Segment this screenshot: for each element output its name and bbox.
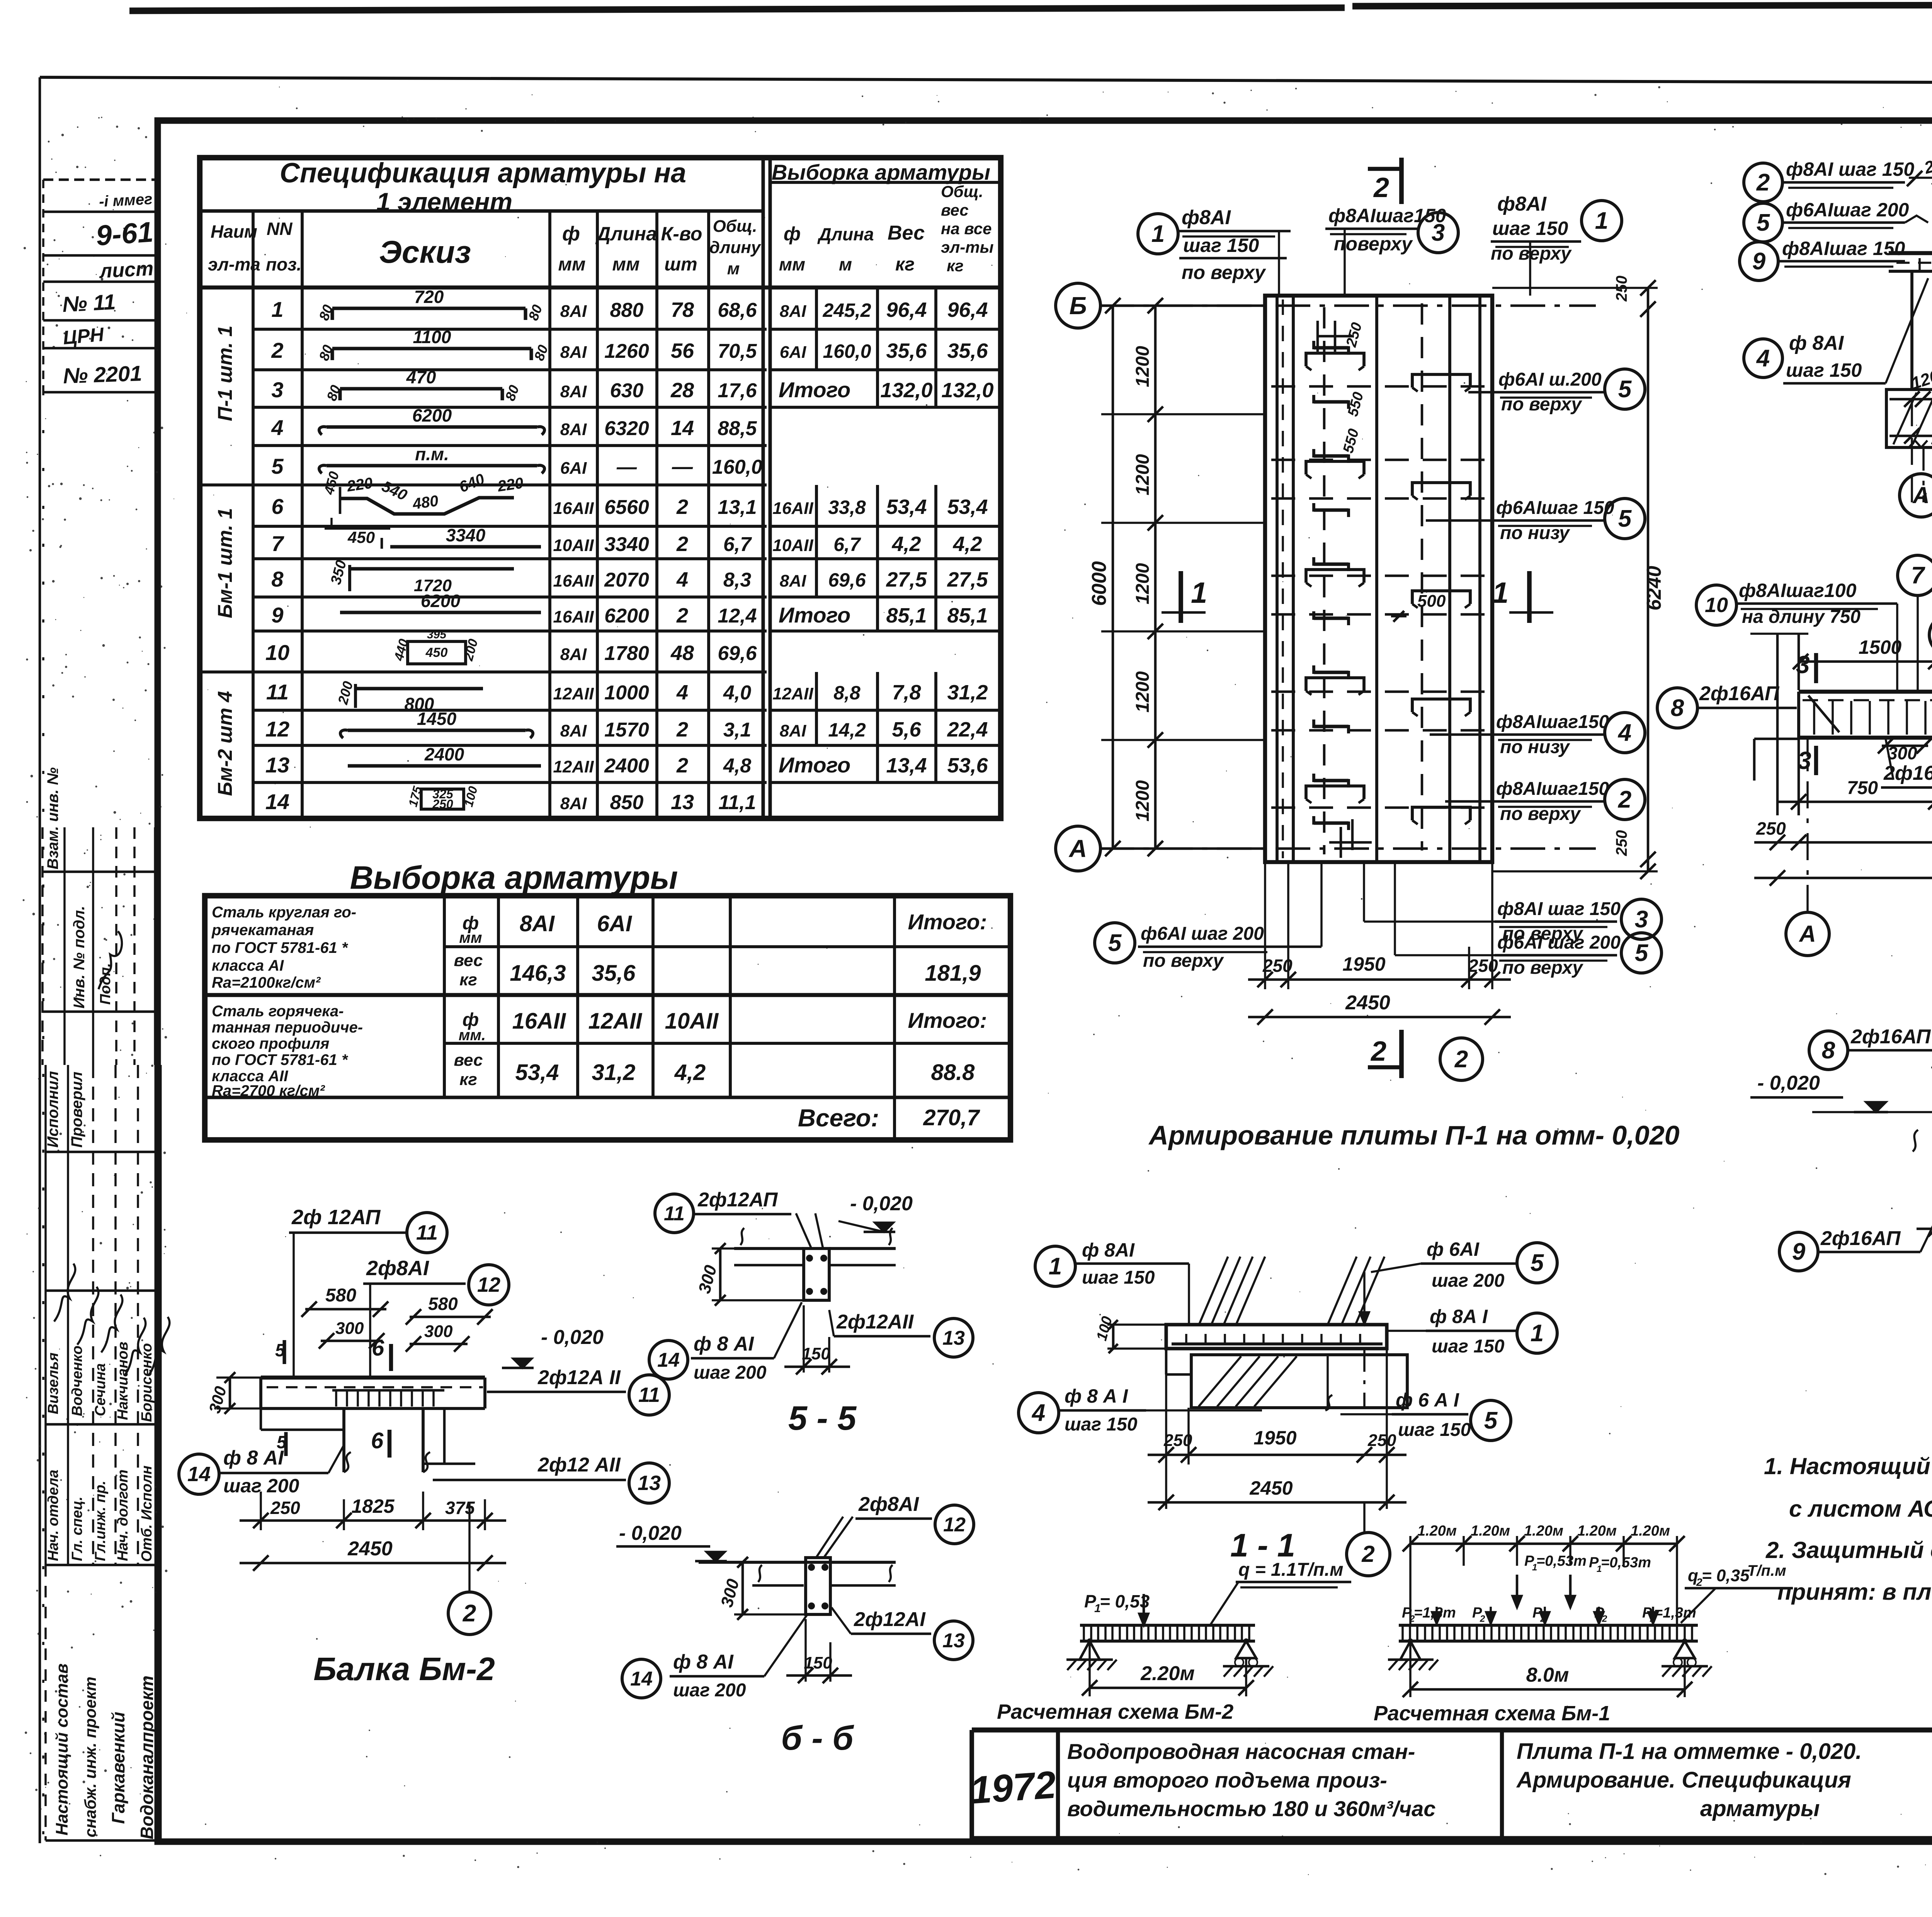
svg-text:- 0,020: - 0,020 bbox=[619, 1522, 682, 1544]
svg-text:ф8АIшаг150: ф8АIшаг150 bbox=[1496, 712, 1609, 732]
svg-text:2: 2 bbox=[271, 338, 283, 362]
svg-text:10: 10 bbox=[1705, 594, 1728, 617]
svg-text:№ 11: № 11 bbox=[62, 289, 116, 316]
svg-text:13: 13 bbox=[638, 1471, 661, 1495]
svg-text:Гл. спец.: Гл. спец. bbox=[69, 1497, 85, 1561]
svg-text:4: 4 bbox=[676, 568, 688, 591]
svg-text:250: 250 bbox=[1163, 1431, 1192, 1450]
spec header lines bbox=[200, 209, 763, 213]
svg-text:2450: 2450 bbox=[347, 1538, 393, 1560]
svg-text:Длина: Длина bbox=[595, 223, 657, 245]
svg-text:12АII: 12АII bbox=[772, 684, 813, 703]
beam Bm-2 slab bbox=[261, 1376, 485, 1379]
svg-text:250: 250 bbox=[1756, 818, 1786, 839]
svg-text:ф 8 АI: ф 8 АI bbox=[694, 1333, 754, 1355]
svg-text:13: 13 bbox=[671, 791, 694, 814]
1-1 dims 250/1950/250 bbox=[1165, 1349, 1167, 1509]
svg-text:5: 5 bbox=[1531, 1250, 1544, 1276]
svg-text:480: 480 bbox=[411, 492, 439, 513]
svg-text:1200: 1200 bbox=[1133, 780, 1153, 822]
svg-text:4,8: 4,8 bbox=[723, 755, 751, 777]
svg-text:2: 2 bbox=[676, 604, 688, 627]
sketch row6 bent bar bbox=[340, 498, 514, 514]
svg-text:Выборка арматуры: Выборка арматуры bbox=[772, 160, 990, 184]
svg-text:ф 8 АI: ф 8 АI bbox=[223, 1447, 284, 1469]
sketch row8 bbox=[348, 565, 351, 591]
svg-text:2.20м: 2.20м bbox=[1140, 1662, 1195, 1685]
Bm-1 callout 10 mid bbox=[1929, 615, 1932, 655]
svg-text:69,6: 69,6 bbox=[828, 569, 866, 591]
scheme Bm-2 right support bbox=[1236, 1641, 1256, 1658]
5-5 callout 14 bbox=[649, 1340, 688, 1379]
svg-text:16АII: 16АII bbox=[553, 499, 594, 518]
svg-text:3,1: 3,1 bbox=[723, 719, 751, 741]
bottom-left organization stamp bbox=[44, 1565, 47, 1840]
svg-text:Гл.инж. пр.: Гл.инж. пр. bbox=[92, 1481, 109, 1561]
plan left rebar ticks bbox=[1314, 346, 1349, 349]
svg-text:1.20м: 1.20м bbox=[1524, 1523, 1563, 1539]
svg-text:11: 11 bbox=[266, 680, 289, 704]
axis dash-dot lines bbox=[1099, 304, 1596, 307]
svg-text:450: 450 bbox=[425, 645, 448, 660]
svg-text:Всего:: Всего: bbox=[798, 1104, 879, 1132]
svg-text:395: 395 bbox=[427, 628, 447, 641]
svg-text:ф 6 А I: ф 6 А I bbox=[1396, 1389, 1459, 1411]
svg-text:Армирование. Спецификация: Армирование. Спецификация bbox=[1516, 1767, 1851, 1793]
svg-text:м: м bbox=[727, 259, 740, 278]
svg-text:1: 1 bbox=[1531, 1320, 1544, 1347]
section 5-5 flange bbox=[734, 1247, 804, 1250]
svg-text:5: 5 bbox=[1618, 505, 1632, 532]
svg-text:1: 1 bbox=[1492, 577, 1509, 609]
svg-text:53,4: 53,4 bbox=[515, 1060, 559, 1085]
svg-text:=0,53т: =0,53т bbox=[1601, 1555, 1651, 1571]
top-left registry stamp bbox=[43, 179, 158, 181]
Bm-2 callout 14 bbox=[179, 1454, 219, 1494]
plan bottom dim 250-1950-250 bbox=[1264, 862, 1266, 989]
svg-text:17,6: 17,6 bbox=[718, 379, 757, 402]
svg-text:по верху: по верху bbox=[1491, 243, 1572, 264]
svg-text:мм: мм bbox=[558, 254, 585, 275]
svg-text:Борисенко: Борисенко bbox=[139, 1343, 155, 1422]
title block frame bbox=[972, 1728, 1932, 1733]
svg-text:ф8АI шаг 150: ф8АI шаг 150 bbox=[1786, 158, 1914, 180]
svg-text:9-61: 9-61 bbox=[95, 216, 155, 252]
svg-text:1.20м: 1.20м bbox=[1471, 1523, 1510, 1539]
svg-text:2070: 2070 bbox=[604, 569, 649, 591]
Bm-1 dim 6240 bbox=[1754, 877, 1932, 879]
section 6-6 flange bbox=[699, 1561, 896, 1564]
svg-text:2450: 2450 bbox=[1249, 1477, 1293, 1499]
row lines bbox=[253, 328, 767, 331]
svg-text:по низу: по низу bbox=[1500, 523, 1570, 543]
svg-text:ф 6АI: ф 6АI bbox=[1427, 1238, 1480, 1260]
svg-text:8АI: 8АI bbox=[780, 721, 806, 740]
svg-text:5 - 5: 5 - 5 bbox=[788, 1399, 857, 1437]
middle-left stamp table bbox=[41, 827, 44, 1065]
svg-text:2ф12АП: 2ф12АП bbox=[697, 1189, 778, 1211]
svg-text:Сечина: Сечина bbox=[92, 1363, 109, 1416]
svg-text:=0,53т: =0,53т bbox=[1536, 1553, 1587, 1569]
svg-text:4: 4 bbox=[1617, 720, 1631, 746]
section 6-6 rib bbox=[806, 1558, 830, 1614]
svg-text:Водопроводная насосная стан-: Водопроводная насосная стан- bbox=[1067, 1739, 1415, 1764]
bottom-left signature stamp bbox=[44, 1065, 47, 1565]
scheme Bm-1 left support bbox=[1400, 1641, 1420, 1660]
svg-text:8: 8 bbox=[271, 567, 284, 591]
svg-text:6,7: 6,7 bbox=[833, 534, 861, 555]
sketch row2 bbox=[332, 347, 531, 350]
svg-text:ф 8 А I: ф 8 А I bbox=[1065, 1385, 1128, 1407]
svg-text:шт: шт bbox=[664, 254, 697, 275]
svg-text:7,8: 7,8 bbox=[892, 681, 921, 704]
svg-text:580: 580 bbox=[428, 1294, 458, 1314]
svg-text:300: 300 bbox=[424, 1322, 453, 1341]
svg-text:12,4: 12,4 bbox=[718, 605, 757, 627]
svg-text:750: 750 bbox=[1847, 778, 1878, 798]
svg-text:класса АI: класса АI bbox=[212, 957, 284, 974]
svg-text:16АII: 16АII bbox=[553, 607, 594, 626]
svg-text:Бм-2 шт 4: Бм-2 шт 4 bbox=[214, 691, 236, 796]
svg-text:Нач. отдела: Нач. отдела bbox=[45, 1470, 61, 1561]
svg-text:580: 580 bbox=[325, 1285, 356, 1306]
Bm-2 dim 300 left bbox=[321, 1340, 383, 1342]
svg-text:160,0: 160,0 bbox=[712, 456, 762, 478]
svg-text:по низу: по низу bbox=[1500, 737, 1570, 757]
svg-text:12: 12 bbox=[477, 1273, 500, 1296]
svg-text:2ф 12АП: 2ф 12АП bbox=[291, 1206, 381, 1229]
svg-text:6200: 6200 bbox=[421, 591, 461, 611]
svg-text:220: 220 bbox=[345, 475, 374, 495]
svg-text:35,6: 35,6 bbox=[886, 339, 927, 362]
svg-text:13,4: 13,4 bbox=[886, 754, 927, 777]
svg-text:181,9: 181,9 bbox=[925, 961, 981, 986]
svg-text:8АI: 8АI bbox=[520, 911, 555, 936]
section 5-5 rib bbox=[804, 1249, 829, 1300]
svg-text:ф 8А I: ф 8А I bbox=[1430, 1306, 1488, 1327]
callout 2 bottom bbox=[1440, 1038, 1483, 1080]
svg-text:шаг 200: шаг 200 bbox=[694, 1362, 767, 1383]
svg-text:Rа=2700 кг/см²: Rа=2700 кг/см² bbox=[212, 1082, 325, 1099]
svg-text:по верху: по верху bbox=[1502, 958, 1583, 978]
svg-text:1100: 1100 bbox=[413, 327, 451, 347]
svg-text:31,2: 31,2 bbox=[592, 1060, 636, 1085]
section mark 2 bottom bbox=[1399, 1030, 1404, 1078]
svg-text:2. Защитный слой бетона до: 2. Защитный слой бетона до рабочей армат… bbox=[1765, 1537, 1932, 1563]
svg-text:1780: 1780 bbox=[604, 642, 649, 665]
svg-text:68,6: 68,6 bbox=[718, 299, 757, 321]
svg-text:Бм-1 шт. 1: Бм-1 шт. 1 bbox=[214, 508, 236, 618]
svg-text:2: 2 bbox=[1373, 172, 1389, 203]
svg-text:ф8АI шаг 150: ф8АI шаг 150 bbox=[1497, 899, 1621, 919]
svg-text:14: 14 bbox=[630, 1668, 653, 1690]
svg-text:132,0: 132,0 bbox=[941, 379, 993, 402]
svg-text:8АI: 8АI bbox=[560, 794, 587, 813]
Bm-2 dim 2450 bbox=[240, 1562, 506, 1565]
svg-text:2: 2 bbox=[676, 718, 688, 741]
scan edge smudge top-right bbox=[1352, 4, 1932, 6]
scheme Bm-2 left support bbox=[1080, 1641, 1100, 1660]
svg-text:водительностью 180 и 360м³/ча: водительностью 180 и 360м³/час bbox=[1067, 1796, 1435, 1821]
svg-text:146,3: 146,3 bbox=[510, 961, 566, 986]
svg-text:4,2: 4,2 bbox=[891, 532, 921, 556]
svg-text:16АII: 16АII bbox=[512, 1009, 567, 1034]
svg-text:q = 1.1Т/п.м: q = 1.1Т/п.м bbox=[1238, 1560, 1344, 1580]
svg-text:м: м bbox=[839, 254, 852, 274]
svg-text:250: 250 bbox=[270, 1498, 300, 1518]
title block verticals bbox=[1056, 1730, 1060, 1839]
callout 1 top-left with label bbox=[1138, 214, 1178, 254]
svg-text:13,1: 13,1 bbox=[718, 496, 757, 519]
svg-text:кг: кг bbox=[895, 254, 915, 275]
svg-text:10АII: 10АII bbox=[553, 536, 594, 555]
Bm-2 leader circle 2 bbox=[448, 1592, 491, 1635]
svg-text:12АII: 12АII bbox=[553, 757, 594, 776]
svg-text:по ГОСТ 5781-61 *: по ГОСТ 5781-61 * bbox=[212, 1051, 349, 1068]
svg-text:88,5: 88,5 bbox=[718, 417, 757, 440]
sketch row1 bbox=[332, 306, 526, 310]
svg-text:14: 14 bbox=[187, 1463, 211, 1486]
svg-text:6: 6 bbox=[271, 494, 284, 519]
svg-text:Б: Б bbox=[1069, 292, 1087, 320]
svg-text:22,4: 22,4 bbox=[947, 718, 988, 741]
svg-text:2ф12АI: 2ф12АI bbox=[854, 1608, 926, 1631]
svg-text:ф6АI шаг 200: ф6АI шаг 200 bbox=[1141, 924, 1264, 944]
svg-text:ф6АI шаг 200: ф6АI шаг 200 bbox=[1497, 932, 1621, 953]
svg-text:1.20м: 1.20м bbox=[1577, 1523, 1617, 1539]
sketch row7 bbox=[381, 538, 383, 549]
scheme Bm-2 dim 2.20м bbox=[1090, 1687, 1246, 1689]
Bm-2 callout 11 top bbox=[407, 1213, 447, 1253]
1-1 lower rib block bbox=[1191, 1355, 1407, 1408]
svg-text:1.20м: 1.20м bbox=[1417, 1523, 1457, 1539]
svg-text:1. Настоящий чертеж рассматр: 1. Настоящий чертеж рассматривать совмес… bbox=[1764, 1453, 1932, 1479]
svg-text:8.0м: 8.0м bbox=[1526, 1664, 1569, 1686]
svg-text:470: 470 bbox=[406, 367, 436, 387]
svg-text:53,6: 53,6 bbox=[947, 754, 988, 777]
svg-text:9: 9 bbox=[1792, 1238, 1806, 1265]
svg-text:27,5: 27,5 bbox=[947, 568, 988, 591]
svg-text:ф8АIшаг100: ф8АIшаг100 bbox=[1739, 580, 1857, 601]
1-1 slab bbox=[1166, 1325, 1387, 1349]
Bm-1 axis circle A bbox=[1786, 912, 1829, 956]
svg-text:3340: 3340 bbox=[604, 533, 649, 556]
svg-text:14,2: 14,2 bbox=[828, 719, 866, 741]
svg-text:Гаркавенкий: Гаркавенкий bbox=[108, 1712, 128, 1824]
svg-text:Итого:: Итого: bbox=[908, 910, 987, 934]
2-2 axis circle A bbox=[1900, 474, 1932, 517]
svg-text:рячекатаная: рячекатаная bbox=[211, 922, 314, 939]
svg-text:8АI: 8АI bbox=[560, 302, 587, 321]
scan edge smudge top-left bbox=[129, 8, 1345, 11]
Bm-1 left callout 8 bbox=[1657, 688, 1697, 728]
svg-text:9: 9 bbox=[271, 603, 283, 627]
5-5 dim 300 bbox=[719, 1249, 722, 1300]
svg-text:1570: 1570 bbox=[604, 719, 649, 741]
svg-text:28: 28 bbox=[670, 379, 694, 402]
svg-text:- 0,020: - 0,020 bbox=[541, 1326, 604, 1349]
Bm-2 slab stirrup ticks bbox=[335, 1390, 337, 1407]
svg-text:Балка Бм-2: Балка Бм-2 bbox=[313, 1651, 495, 1687]
svg-text:6АI: 6АI bbox=[780, 343, 806, 362]
callout 5 bottom-left bbox=[1095, 923, 1135, 963]
svg-text:по ГОСТ 5781-61 *: по ГОСТ 5781-61 * bbox=[212, 939, 349, 956]
svg-text:4,0: 4,0 bbox=[723, 682, 751, 704]
svg-text:Итого: Итого bbox=[779, 378, 850, 402]
svg-text:1: 1 bbox=[1595, 208, 1608, 234]
svg-text:69,6: 69,6 bbox=[718, 642, 757, 665]
svg-text:ция второго подъема произ-: ция второго подъема произ- bbox=[1067, 1768, 1387, 1792]
svg-text:ЦРН: ЦРН bbox=[62, 323, 105, 349]
svg-text:-і ммег: -і ммег bbox=[99, 191, 153, 210]
svg-text:12: 12 bbox=[943, 1514, 966, 1536]
Bm-1 dim 300 left bbox=[1882, 745, 1928, 747]
svg-text:Длина: Длина bbox=[817, 224, 874, 244]
5-5 dim 150 bbox=[803, 1305, 805, 1373]
svg-text:1450: 1450 bbox=[417, 709, 457, 729]
svg-text:ф8АIшаг 150: ф8АIшаг 150 bbox=[1782, 238, 1905, 259]
svg-text:длину: длину bbox=[709, 238, 762, 257]
svg-text:Общ.: Общ. bbox=[713, 217, 757, 236]
svg-text:6000: 6000 bbox=[1088, 561, 1111, 606]
svg-text:6: 6 bbox=[372, 1335, 384, 1361]
sketch row3 bbox=[340, 387, 502, 390]
svg-text:14: 14 bbox=[671, 417, 694, 440]
svg-text:П-1 шт. 1: П-1 шт. 1 bbox=[214, 325, 236, 421]
svg-text:2ф8АI: 2ф8АI bbox=[366, 1257, 429, 1280]
svg-text:132,0: 132,0 bbox=[880, 379, 932, 402]
svg-text:6: 6 bbox=[371, 1428, 384, 1453]
svg-text:Итого:: Итого: bbox=[908, 1008, 987, 1032]
svg-text:Сталь круглая го-: Сталь круглая го- bbox=[212, 904, 356, 921]
Bm-2 dim 580 right bbox=[410, 1316, 491, 1318]
svg-text:1972: 1972 bbox=[969, 1763, 1058, 1812]
svg-text:14: 14 bbox=[265, 789, 289, 814]
svg-text:16АII: 16АII bbox=[553, 572, 594, 590]
svg-text:8: 8 bbox=[1671, 695, 1684, 721]
svg-text:2ф8АI: 2ф8АI bbox=[858, 1493, 919, 1516]
svg-text:1.20м: 1.20м bbox=[1631, 1523, 1670, 1539]
svg-text:ф8АI: ф8АI bbox=[1182, 206, 1231, 229]
svg-text:ского профиля: ского профиля bbox=[212, 1035, 329, 1052]
svg-text:танная периодиче-: танная периодиче- bbox=[212, 1019, 363, 1036]
svg-text:10АII: 10АII bbox=[665, 1009, 719, 1034]
sketch row9 bbox=[340, 611, 541, 614]
svg-text:8АI: 8АI bbox=[560, 382, 587, 401]
svg-text:78: 78 bbox=[671, 298, 694, 321]
svg-text:шаг 150: шаг 150 bbox=[1786, 359, 1862, 381]
svg-text:2: 2 bbox=[676, 495, 688, 519]
svg-text:8,8: 8,8 bbox=[833, 682, 861, 704]
svg-text:250: 250 bbox=[1367, 1431, 1396, 1450]
svg-text:4,2: 4,2 bbox=[674, 1060, 706, 1085]
3-3 callout 9 bbox=[1779, 1232, 1818, 1271]
svg-text:лист: лист bbox=[98, 257, 154, 282]
svg-text:шаг 200: шаг 200 bbox=[1432, 1271, 1505, 1291]
svg-text:Вес: Вес bbox=[888, 222, 925, 244]
svg-text:Инв. № подл.: Инв. № подл. bbox=[71, 906, 88, 1009]
svg-text:16АII: 16АII bbox=[772, 499, 813, 518]
svg-text:27,5: 27,5 bbox=[886, 568, 927, 591]
svg-text:2450: 2450 bbox=[1345, 992, 1390, 1014]
svg-text:6АI: 6АI bbox=[597, 911, 633, 936]
svg-text:Итого: Итого bbox=[779, 753, 850, 777]
svg-text:8АI: 8АI bbox=[560, 420, 587, 439]
svg-text:принят: в плите - 15мм, в ба: принят: в плите - 15мм, в балках - 25мм. bbox=[1777, 1579, 1932, 1605]
svg-text:85,1: 85,1 bbox=[886, 604, 927, 627]
svg-text:300: 300 bbox=[335, 1319, 364, 1338]
vyborka table frame bbox=[205, 896, 1010, 1140]
svg-text:11: 11 bbox=[638, 1383, 660, 1407]
svg-text:14: 14 bbox=[657, 1349, 680, 1371]
svg-text:2: 2 bbox=[676, 532, 688, 556]
svg-text:500: 500 bbox=[1417, 592, 1446, 611]
svg-text:ф 8АI: ф 8АI bbox=[1082, 1239, 1135, 1261]
svg-text:5: 5 bbox=[1484, 1407, 1498, 1434]
sketch row5 bbox=[327, 464, 537, 467]
6-6 dim 150 bbox=[804, 1619, 807, 1682]
svg-text:б - б: б - б bbox=[781, 1719, 854, 1757]
plan horizontal dashed rebar bbox=[1271, 385, 1488, 388]
svg-text:мм.: мм. bbox=[459, 1027, 486, 1044]
dim 6000 vertical bbox=[1112, 306, 1114, 849]
sketch row13 bbox=[348, 764, 541, 767]
2-2 left callout 5 bbox=[1744, 203, 1782, 242]
svg-text:3: 3 bbox=[1798, 747, 1811, 774]
svg-text:85,1: 85,1 bbox=[947, 604, 988, 627]
svg-text:720: 720 bbox=[414, 287, 444, 307]
svg-text:Отб. Исполн: Отб. Исполн bbox=[139, 1465, 155, 1562]
2-2 left callout 9 bbox=[1740, 242, 1778, 281]
svg-text:4: 4 bbox=[1756, 345, 1770, 372]
svg-text:= 0,35: = 0,35 bbox=[1702, 1566, 1750, 1585]
svg-text:Расчетная схема Бм-2: Расчетная схема Бм-2 bbox=[997, 1700, 1233, 1723]
svg-text:12АII: 12АII bbox=[588, 1009, 643, 1034]
svg-text:8,3: 8,3 bbox=[723, 569, 751, 591]
svg-text:6240: 6240 bbox=[1643, 566, 1665, 611]
svg-text:6АI: 6АI bbox=[560, 459, 587, 478]
svg-text:А: А bbox=[1068, 835, 1087, 862]
svg-text:250: 250 bbox=[1262, 956, 1293, 976]
svg-text:мм: мм bbox=[459, 929, 482, 946]
section 2-2 slab bbox=[1889, 251, 1932, 255]
axis circle A bbox=[1056, 826, 1100, 871]
Bm-2 vertical dim 300 bbox=[229, 1378, 231, 1408]
svg-text:ф 8АI: ф 8АI bbox=[1789, 332, 1844, 354]
svg-text:1200: 1200 bbox=[1133, 563, 1153, 604]
Bm-1 dims row 250/5740/250 bbox=[1754, 841, 1932, 844]
Bm-1 callout 7 top bbox=[1898, 555, 1932, 595]
svg-text:5: 5 bbox=[271, 454, 284, 478]
svg-text:53,4: 53,4 bbox=[947, 495, 988, 519]
svg-text:96,4: 96,4 bbox=[947, 298, 988, 321]
svg-text:4,2: 4,2 bbox=[952, 532, 982, 556]
1-1 diagonal rebars above left bbox=[1199, 1257, 1228, 1325]
svg-text:2: 2 bbox=[1361, 1541, 1374, 1567]
svg-text:Визелья: Визелья bbox=[45, 1352, 61, 1414]
svg-text:№ 2201: № 2201 bbox=[63, 361, 142, 388]
5-5 callout 11 bbox=[655, 1194, 694, 1233]
svg-text:11: 11 bbox=[416, 1221, 438, 1244]
dim 1200 steps vertical bbox=[1154, 306, 1157, 849]
svg-text:ф6АIшаг 200: ф6АIшаг 200 bbox=[1786, 199, 1909, 221]
svg-text:шаг 150: шаг 150 bbox=[1065, 1414, 1138, 1435]
svg-text:шаг 200: шаг 200 bbox=[673, 1680, 746, 1701]
svg-text:Итого: Итого bbox=[779, 603, 850, 627]
axis circle B bbox=[1056, 283, 1100, 328]
svg-text:п.м.: п.м. bbox=[415, 444, 449, 464]
specification table frame bbox=[200, 158, 1001, 818]
